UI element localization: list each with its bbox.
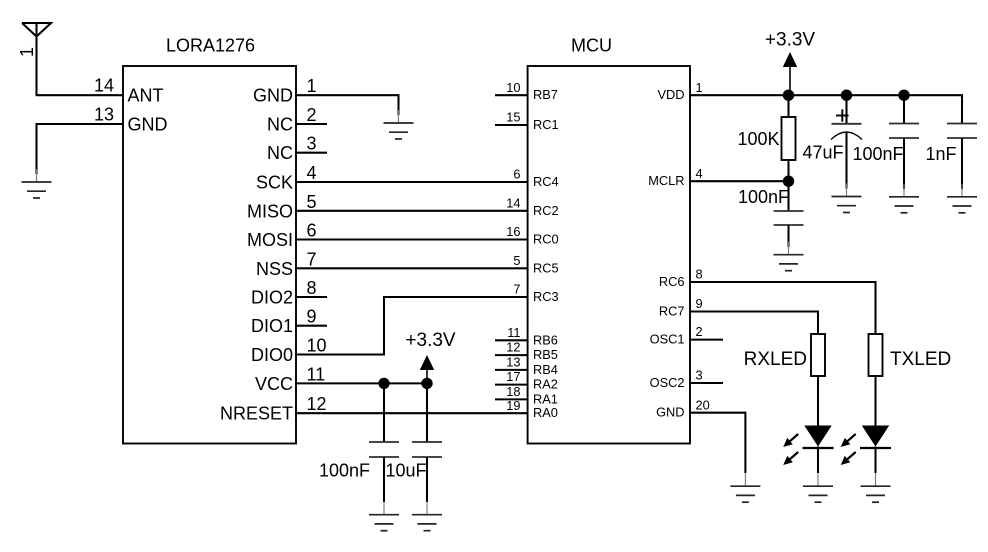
svg-text:100nF: 100nF <box>852 144 903 164</box>
svg-text:MISO: MISO <box>247 201 293 221</box>
MCU pin 15 name RC1 <box>533 117 559 132</box>
svg-text:11: 11 <box>507 325 520 340</box>
svg-text:OSC1: OSC1 <box>650 332 685 347</box>
svg-text:3: 3 <box>307 134 317 154</box>
svg-text:RC6: RC6 <box>659 274 685 289</box>
wire 100nF to ground <box>383 457 385 502</box>
wire RC7 to RXLED resistor <box>690 312 818 335</box>
svg-text:+3.3V: +3.3V <box>405 330 456 351</box>
MCU pin 12 number <box>506 340 520 355</box>
wire LORA pin 13 GND to ground <box>37 124 124 174</box>
svg-text:5: 5 <box>513 253 520 268</box>
ground (antenna) <box>22 169 52 198</box>
LORA pin 3 stub <box>296 152 327 154</box>
LORA pin 4 name SCK <box>256 173 293 193</box>
LORA pin 10 number <box>307 336 327 356</box>
MCU pin 9 number <box>696 296 703 311</box>
ground (10uF) <box>412 502 442 531</box>
svg-text:10uF: 10uF <box>385 461 426 481</box>
MCU pin 13 stub <box>495 369 528 371</box>
junction VDD/100nF <box>898 90 909 101</box>
MCU pin 19 name RA0 <box>533 405 558 420</box>
wire VCC rail (LORA pin 11) <box>296 382 427 384</box>
svg-text:10: 10 <box>307 336 327 356</box>
svg-text:RA0: RA0 <box>533 405 558 420</box>
svg-text:RB7: RB7 <box>533 87 558 102</box>
LORA pin 13 name GND <box>128 115 168 135</box>
MCU pin 2 OSC1 stub <box>690 339 723 341</box>
MCU pin 17 number <box>506 369 520 384</box>
LORA pin 9 name DIO1 <box>251 316 293 336</box>
ground (100nF MCLR) <box>774 242 804 271</box>
capacitor 100nF (MCLR) label <box>738 187 789 207</box>
IC LORA1276 box <box>123 66 296 444</box>
capacitor 47uF label <box>802 143 843 163</box>
ground (TX LED) <box>861 473 891 502</box>
antenna E1 <box>22 23 51 37</box>
MCU pin 13 name RB4 <box>533 362 558 377</box>
label LORA1276 <box>166 35 255 55</box>
svg-text:9: 9 <box>307 307 317 327</box>
LORA pin 14 name ANT <box>128 86 164 106</box>
svg-text:VCC: VCC <box>255 374 293 394</box>
svg-text:12: 12 <box>506 340 520 355</box>
LORA pin 10 name DIO0 <box>251 345 293 365</box>
svg-text:20: 20 <box>696 397 710 412</box>
junction VDD/100K <box>783 90 794 101</box>
MCU pin 4 number <box>696 166 703 181</box>
resistor TXLED <box>869 334 883 376</box>
wire LORA pin1 GND to ground <box>296 95 399 115</box>
LORA pin 2 number <box>307 105 317 125</box>
svg-text:17: 17 <box>506 369 520 384</box>
svg-text:RC1: RC1 <box>533 117 559 132</box>
svg-text:6: 6 <box>307 221 317 241</box>
svg-text:MCLR: MCLR <box>648 173 684 188</box>
svg-text:RB4: RB4 <box>533 362 558 377</box>
capacitor 100nF (VDD rail) <box>889 95 919 189</box>
svg-text:GND: GND <box>253 86 293 106</box>
svg-text:100nF: 100nF <box>738 187 789 207</box>
MCU pin 18 number <box>506 384 520 399</box>
LED TX diode <box>860 376 891 473</box>
LORA pin 11 number <box>307 364 326 384</box>
MCU pin 5 number <box>513 253 520 268</box>
svg-text:NC: NC <box>267 143 293 163</box>
resistor TXLED label <box>890 349 951 370</box>
resistor 100K <box>782 95 796 181</box>
MCU pin 14 number <box>506 195 520 210</box>
label MCU <box>571 35 612 55</box>
LORA pin 1 number <box>307 76 317 96</box>
MCU pin 3 name OSC2 <box>650 375 685 390</box>
MCU pin 12 name RB5 <box>533 347 558 362</box>
IC MCU box <box>528 66 690 444</box>
svg-text:RA1: RA1 <box>533 391 558 406</box>
svg-text:6: 6 <box>513 167 520 182</box>
LORA pin 4 number <box>307 163 317 183</box>
ground (47uF) <box>832 184 862 213</box>
svg-text:8: 8 <box>696 267 703 282</box>
svg-text:18: 18 <box>506 384 520 399</box>
svg-text:RC5: RC5 <box>533 260 559 275</box>
LORA pin 3 name NC <box>267 143 293 163</box>
MCU pin 13 number <box>506 355 520 370</box>
MCU pin 10 name RB7 <box>533 87 558 102</box>
LORA pin 12 name NRESET <box>220 404 293 424</box>
MCU pin 20 name GND <box>656 405 684 420</box>
svg-text:RXLED: RXLED <box>744 349 807 370</box>
wire VDD rail <box>690 95 962 123</box>
ground (1nF) <box>947 184 977 213</box>
resistor RXLED label <box>744 349 807 370</box>
svg-text:15: 15 <box>506 110 520 125</box>
svg-text:2: 2 <box>696 324 703 339</box>
power +3.3V label (middle) <box>405 330 456 351</box>
MCU pin 6 number <box>513 167 520 182</box>
LORA pin 5 number <box>307 192 317 212</box>
capacitor 10uF plates <box>412 442 442 457</box>
MCU pin 17 stub <box>495 384 528 386</box>
svg-text:11: 11 <box>307 364 326 384</box>
svg-text:1: 1 <box>17 47 37 57</box>
svg-text:2: 2 <box>307 105 317 125</box>
svg-text:RB5: RB5 <box>533 347 558 362</box>
LED RX emission arrows <box>783 434 798 465</box>
LED RX diode <box>803 376 834 473</box>
LORA pin 3 number <box>307 134 317 154</box>
LORA pin 12 number <box>307 394 327 414</box>
wire antenna to LORA pin 14 ANT <box>37 37 124 96</box>
MCU pin 4 name MCLR <box>648 173 684 188</box>
ground (MCU pin 20) <box>730 473 760 502</box>
MCU pin 2 number <box>696 324 703 339</box>
wire NRESET to RA0 <box>296 412 528 414</box>
svg-text:RC3: RC3 <box>533 289 559 304</box>
MCU pin 15 stub <box>495 124 528 126</box>
LORA pin 8 name DIO2 <box>251 288 293 308</box>
wire RC6 to TXLED resistor <box>690 282 876 334</box>
MCU pin 8 number <box>696 267 703 282</box>
LORA pin 14 number <box>94 76 114 96</box>
svg-text:RC4: RC4 <box>533 174 559 189</box>
capacitor 100nF (VDD rail) label <box>852 144 903 164</box>
svg-text:3: 3 <box>696 368 703 383</box>
MCU pin 14 name RC2 <box>533 203 559 218</box>
svg-text:RB6: RB6 <box>533 332 558 347</box>
MCU pin 3 number <box>696 368 703 383</box>
resistor RXLED <box>811 334 825 376</box>
svg-text:1: 1 <box>696 80 703 95</box>
svg-text:RC0: RC0 <box>533 232 559 247</box>
power +3.3V arrow (top) <box>783 52 797 95</box>
svg-text:GND: GND <box>656 405 684 420</box>
svg-text:4: 4 <box>307 163 317 183</box>
wire MCU GND pin 20 <box>690 413 745 473</box>
MCU pin 1 name VDD <box>657 87 684 102</box>
svg-text:DIO1: DIO1 <box>251 316 293 336</box>
LORA pin 6 name MOSI <box>247 230 293 250</box>
svg-text:13: 13 <box>94 105 114 125</box>
svg-text:DIO0: DIO0 <box>251 345 293 365</box>
MCU pin 17 name RA2 <box>533 377 558 392</box>
wire DIO0 to RC3 <box>296 297 528 355</box>
power +3.3V arrow (middle) <box>420 355 434 383</box>
svg-text:7: 7 <box>513 282 520 297</box>
LORA pin 9 stub <box>296 325 327 327</box>
capacitor 100nF (VCC) label <box>319 461 370 481</box>
MCU pin 20 number <box>696 397 710 412</box>
LED TX emission arrows <box>841 434 856 465</box>
LORA pin 2 name NC <box>267 115 293 135</box>
ground (100nF rail) <box>889 184 919 213</box>
junction MCLR/100nF <box>783 176 794 187</box>
MCU pin 3 OSC2 stub <box>690 382 723 384</box>
svg-text:NSS: NSS <box>256 259 293 279</box>
MCU pin 15 number <box>506 110 520 125</box>
LORA pin 2 stub <box>296 123 327 125</box>
LORA pin 7 number <box>307 249 317 269</box>
MCU pin 6 name RC4 <box>533 174 559 189</box>
svg-text:100nF: 100nF <box>319 461 370 481</box>
svg-text:RC2: RC2 <box>533 203 559 218</box>
svg-text:ANT: ANT <box>128 86 164 106</box>
svg-text:GND: GND <box>128 115 168 135</box>
MCU pin 18 stub <box>495 398 528 400</box>
svg-text:14: 14 <box>506 195 520 210</box>
LORA pin 8 stub <box>296 296 327 298</box>
MCU pin 2 name OSC1 <box>650 332 685 347</box>
svg-text:RA2: RA2 <box>533 377 558 392</box>
MCU pin 8 name RC6 <box>659 274 685 289</box>
svg-text:14: 14 <box>94 76 114 96</box>
svg-text:VDD: VDD <box>657 87 684 102</box>
MCU pin 5 name RC5 <box>533 260 559 275</box>
svg-text:+3.3V: +3.3V <box>765 30 816 51</box>
svg-text:10: 10 <box>506 80 520 95</box>
svg-text:13: 13 <box>506 355 520 370</box>
svg-text:12: 12 <box>307 394 327 414</box>
svg-text:1nF: 1nF <box>925 144 956 164</box>
ground (RX LED) <box>803 473 833 502</box>
LORA pin 9 number <box>307 307 317 327</box>
MCU pin 11 name RB6 <box>533 332 558 347</box>
LORA pin 11 name VCC <box>255 374 293 394</box>
capacitor 1nF label <box>925 144 956 164</box>
capacitor 1nF <box>947 124 977 189</box>
svg-text:4: 4 <box>696 166 703 181</box>
MCU pin 19 number <box>506 398 520 413</box>
MCU pin 16 name RC0 <box>533 232 559 247</box>
svg-text:SCK: SCK <box>256 173 293 193</box>
power +3.3V label (top) <box>765 30 816 51</box>
junction VCC / +3.3V / 10uF <box>421 378 432 389</box>
svg-text:16: 16 <box>506 224 520 239</box>
junction VCC / 100nF <box>378 378 389 389</box>
capacitor 10uF label <box>385 461 426 481</box>
svg-text:MCU: MCU <box>571 35 612 55</box>
svg-text:1: 1 <box>307 76 317 96</box>
capacitor 47uF (polarized) <box>831 95 862 188</box>
svg-text:OSC2: OSC2 <box>650 375 685 390</box>
svg-text:8: 8 <box>307 278 317 298</box>
LORA pin 5 name MISO <box>247 201 293 221</box>
svg-text:5: 5 <box>307 192 317 212</box>
MCU pin 1 number <box>696 80 703 95</box>
wire MCLR <box>690 180 789 182</box>
svg-text:NRESET: NRESET <box>220 404 293 424</box>
capacitor 10uF wire <box>426 383 428 442</box>
LORA pin 1 name GND <box>253 86 293 106</box>
MCU pin 7 name RC3 <box>533 289 559 304</box>
antenna pin 1 label <box>17 47 37 57</box>
LORA pin 7 name NSS <box>256 259 293 279</box>
LORA pin 13 number <box>94 105 114 125</box>
MCU pin 7 number <box>513 282 520 297</box>
capacitor 100nF (VCC) wire <box>383 383 385 442</box>
svg-text:7: 7 <box>307 249 317 269</box>
wire MOSI to RC0 <box>296 238 528 240</box>
svg-text:NC: NC <box>267 115 293 135</box>
wire SCK to RC4 <box>296 181 528 183</box>
svg-text:TXLED: TXLED <box>890 349 951 370</box>
MCU pin 16 number <box>506 224 520 239</box>
MCU pin 11 number <box>507 325 520 340</box>
capacitor 100nF (VCC) plates <box>369 442 399 457</box>
svg-text:MOSI: MOSI <box>247 230 293 250</box>
capacitor 100nF (MCLR) <box>774 181 804 247</box>
LORA pin 6 number <box>307 221 317 241</box>
LORA pin 8 number <box>307 278 317 298</box>
ground (100nF VCC) <box>369 502 399 531</box>
MCU pin 10 stub <box>495 94 528 96</box>
resistor 100K label <box>737 129 779 149</box>
svg-text:DIO2: DIO2 <box>251 288 293 308</box>
wire MISO to RC2 <box>296 210 528 212</box>
wire 10uF to ground <box>426 457 428 502</box>
MCU pin 11 stub <box>495 339 528 341</box>
svg-text:LORA1276: LORA1276 <box>166 35 255 55</box>
wire NSS to RC5 <box>296 267 528 269</box>
svg-text:47uF: 47uF <box>802 143 843 163</box>
ground (LORA pin 1) <box>384 110 414 139</box>
MCU pin 9 name RC7 <box>659 304 685 319</box>
MCU pin 12 stub <box>495 354 528 356</box>
svg-text:19: 19 <box>506 398 520 413</box>
svg-text:100K: 100K <box>737 129 779 149</box>
junction VDD/47uF <box>841 90 852 101</box>
svg-text:9: 9 <box>696 296 703 311</box>
svg-text:RC7: RC7 <box>659 304 685 319</box>
MCU pin 10 number <box>506 80 520 95</box>
MCU pin 18 name RA1 <box>533 391 558 406</box>
